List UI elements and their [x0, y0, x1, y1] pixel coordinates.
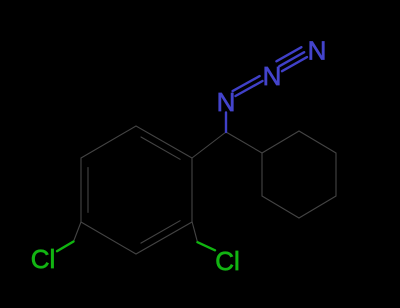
wire: cyclohexane edge T2-UR2	[299, 131, 336, 153]
wire: ring edge LL-B	[81, 222, 136, 254]
wire: bond LR to Cl (carbon half)	[192, 222, 198, 243]
wire: bond CH to N1 (nitrogen half)	[225, 113, 227, 133]
wire: bond to Cl left (chlorine half)	[57, 242, 74, 252]
wire: triple bond N2#N3	[282, 57, 307, 71]
wire: ring edge B-LR (double)	[136, 222, 192, 254]
svg-text:Cl: Cl	[31, 244, 56, 274]
wire: ring edge LR-UR	[191, 158, 193, 222]
svg-text:N: N	[308, 36, 327, 66]
wire: ring edge UR-T (double)	[136, 126, 192, 158]
wire: ring edge T-UL	[81, 126, 136, 158]
wire: bond CH to cyclohexyl	[226, 132, 262, 153]
wire: double bond N1=N2	[236, 81, 263, 96]
wire: cyclohexane edge UL2-T2	[262, 131, 299, 153]
wire: bond UR to CH	[192, 132, 226, 158]
wire: cyclohexane edge LR2-B2	[299, 196, 336, 218]
wire: bond to Cl right (chlorine half)	[198, 242, 216, 250]
wire: cyclohexane edge LL2-UL2	[261, 153, 263, 196]
svg-text:Cl: Cl	[215, 246, 240, 276]
svg-text:N: N	[263, 61, 282, 91]
wire: bond LL to Cl (carbon half)	[74, 222, 82, 242]
wire: cyclohexane edge UR2-LR2	[335, 153, 337, 196]
wire: ring edge UL-LL (double)	[80, 158, 82, 222]
svg-text:N: N	[217, 87, 236, 117]
wire: cyclohexane edge B2-LL2	[262, 196, 299, 218]
